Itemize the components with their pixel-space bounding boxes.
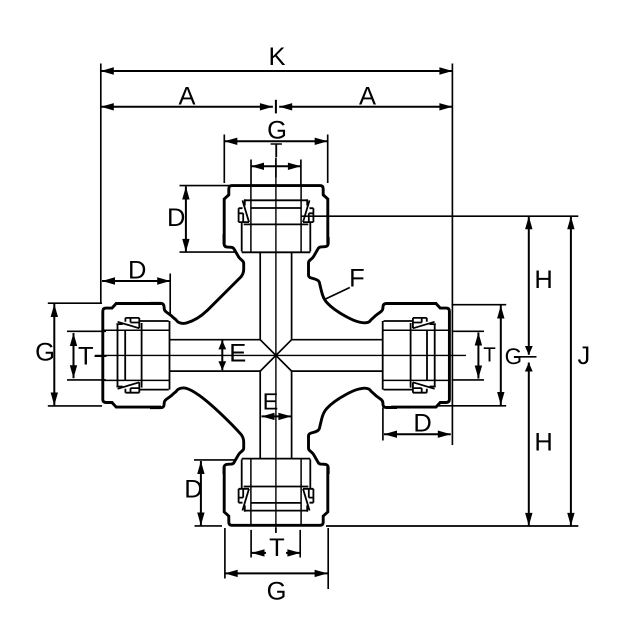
extension line right (K/A/D) <box>451 64 453 446</box>
svg-text:D: D <box>413 409 431 437</box>
bore lines right port <box>292 340 383 371</box>
dimension G bottom <box>225 572 328 574</box>
svg-text:G: G <box>267 577 287 605</box>
svg-text:G: G <box>505 344 523 369</box>
svg-text:E: E <box>263 388 279 414</box>
nut bottom port <box>224 459 328 526</box>
svg-text:T: T <box>78 343 94 371</box>
dimension E vertical (center-left) <box>221 340 223 370</box>
svg-text:J: J <box>578 342 591 370</box>
white mask behind T bottom label <box>266 538 286 555</box>
svg-text:A: A <box>178 83 195 111</box>
dimension E horizontal (below center) <box>262 415 292 417</box>
svg-text:K: K <box>268 43 285 71</box>
dimension K <box>101 70 453 72</box>
vertical centerline <box>275 160 277 532</box>
dimension J <box>570 216 572 526</box>
svg-text:H: H <box>534 429 552 457</box>
dimension D left <box>102 280 170 282</box>
svg-text:D: D <box>167 204 185 232</box>
horizontal centerline <box>95 354 466 356</box>
body quadrant lower-left <box>150 388 244 474</box>
dimension D top-left <box>185 187 187 252</box>
F leader line <box>326 288 350 300</box>
dimension G top <box>224 140 327 142</box>
bore lines top port <box>260 252 291 339</box>
dimension D bottom <box>200 461 202 526</box>
dimension T left <box>73 333 75 378</box>
label tick T top <box>275 158 277 178</box>
extension line left (K/A) <box>100 64 102 303</box>
svg-text:H: H <box>534 266 552 294</box>
extension top right (H/J) <box>301 215 579 217</box>
svg-text:F: F <box>349 264 365 292</box>
dimension A left <box>101 106 273 108</box>
dimension H upper <box>528 216 530 355</box>
dimension D right <box>384 433 451 435</box>
center bore chamfer X <box>260 340 291 371</box>
extension bottom right (H/J) <box>326 525 578 527</box>
svg-text:A: A <box>359 83 376 111</box>
body quadrant upper-right <box>309 237 398 323</box>
svg-text:G: G <box>35 339 55 367</box>
svg-text:D: D <box>128 256 146 284</box>
dimension G right <box>500 306 502 406</box>
dimension T right <box>477 333 479 379</box>
dimension T bottom <box>252 552 301 554</box>
body quadrant upper-left <box>150 234 244 323</box>
nut top port <box>224 186 328 253</box>
nut right port <box>383 304 450 408</box>
svg-text:E: E <box>229 340 246 368</box>
dimension T top <box>251 165 301 167</box>
body quadrant lower-right <box>309 388 398 474</box>
bore lines bottom port <box>260 371 291 459</box>
dimension H lower <box>528 363 530 526</box>
dimension A right <box>279 106 452 108</box>
center tick for H <box>514 356 537 358</box>
bore lines left port <box>169 340 260 371</box>
svg-text:T: T <box>270 140 282 162</box>
label tick T left <box>95 355 107 357</box>
center tick for A <box>275 100 277 114</box>
svg-text:T: T <box>269 534 285 562</box>
nut left port <box>103 304 170 408</box>
svg-text:T: T <box>483 344 496 367</box>
label tick T bottom <box>275 528 277 533</box>
svg-text:D: D <box>184 476 202 504</box>
dimension G left <box>53 304 55 406</box>
